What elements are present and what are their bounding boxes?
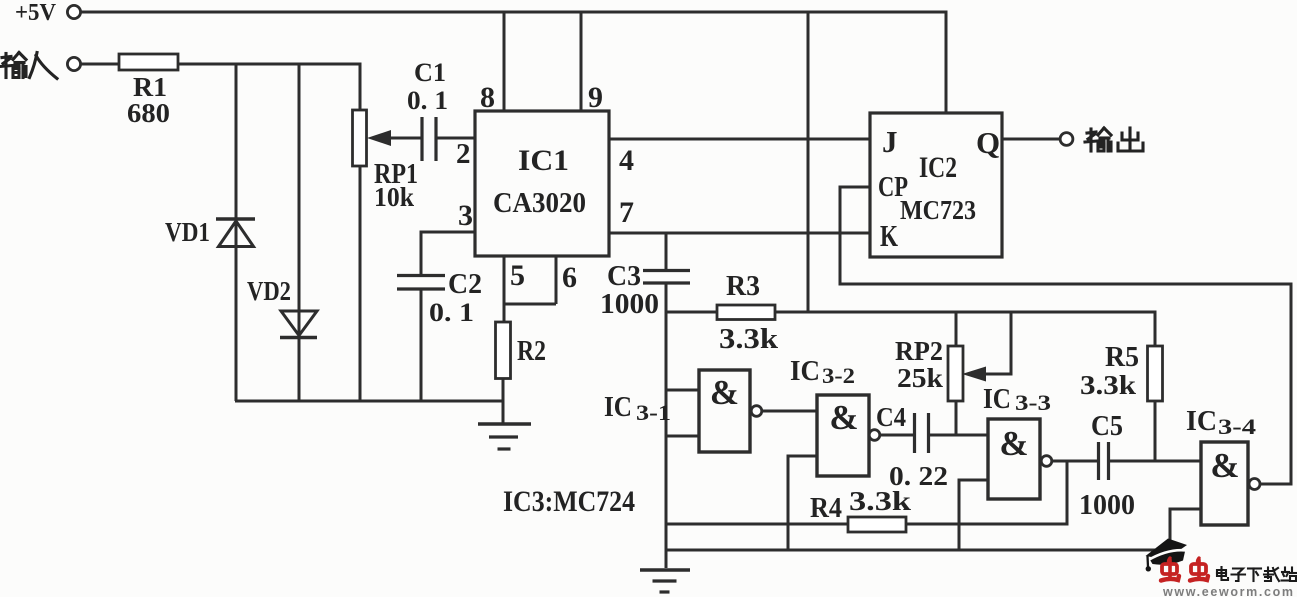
svg-text:&: & [999,424,1028,463]
svg-text:IC: IC [1186,405,1217,437]
svg-text:C5: C5 [1091,411,1123,442]
svg-text:680: 680 [127,98,170,128]
svg-text:IC: IC [790,355,820,387]
svg-text:8: 8 [480,81,495,114]
svg-text:0. 1: 0. 1 [429,298,474,327]
svg-text:3: 3 [458,199,473,232]
svg-text:&: & [1210,446,1239,485]
svg-text:www.eeworm.com: www.eeworm.com [1162,585,1293,597]
svg-text:K: K [880,218,898,253]
svg-text:R3: R3 [726,270,760,302]
svg-text:R2: R2 [517,335,546,367]
svg-text:IC: IC [983,383,1011,415]
svg-text:+5V: +5V [15,0,57,26]
svg-text:9: 9 [588,81,603,114]
svg-text:1000: 1000 [1079,490,1135,521]
svg-text:3-1: 3-1 [636,400,671,425]
svg-text:R4: R4 [810,492,842,524]
svg-text:IC: IC [604,391,632,423]
svg-text:3-4: 3-4 [1218,414,1256,439]
svg-text:25k: 25k [897,363,943,393]
svg-text:3.3k: 3.3k [719,324,778,355]
svg-text:Q: Q [976,125,1000,160]
svg-text:CA3020: CA3020 [493,187,586,219]
svg-text:C3: C3 [607,261,641,292]
svg-text:&: & [829,398,858,437]
svg-text:C4: C4 [876,402,906,432]
svg-text:R5: R5 [1105,341,1139,373]
svg-text:0. 1: 0. 1 [407,86,448,115]
svg-text:3-3: 3-3 [1015,390,1051,415]
svg-text:C2: C2 [448,269,482,300]
svg-text:3.3k: 3.3k [1080,370,1136,400]
svg-text:J: J [882,124,898,159]
svg-text:1000: 1000 [600,289,659,320]
svg-text:IC2: IC2 [919,151,957,184]
svg-text:IC1: IC1 [518,144,569,177]
svg-text:&: & [710,373,739,412]
svg-text:2: 2 [456,138,471,170]
svg-text:6: 6 [562,261,577,294]
svg-text:RP2: RP2 [895,336,943,366]
svg-text:10k: 10k [374,182,414,212]
svg-text:7: 7 [619,196,634,229]
svg-text:IC3:MC724: IC3:MC724 [503,485,635,518]
svg-text:3-2: 3-2 [822,363,855,388]
svg-text:3.3k: 3.3k [849,486,911,516]
svg-text:C1: C1 [414,58,446,87]
svg-text:5: 5 [510,259,525,292]
svg-text:MC723: MC723 [900,195,976,225]
svg-text:VD2: VD2 [247,276,291,306]
svg-text:VD1: VD1 [165,217,210,247]
svg-text:4: 4 [619,144,634,177]
